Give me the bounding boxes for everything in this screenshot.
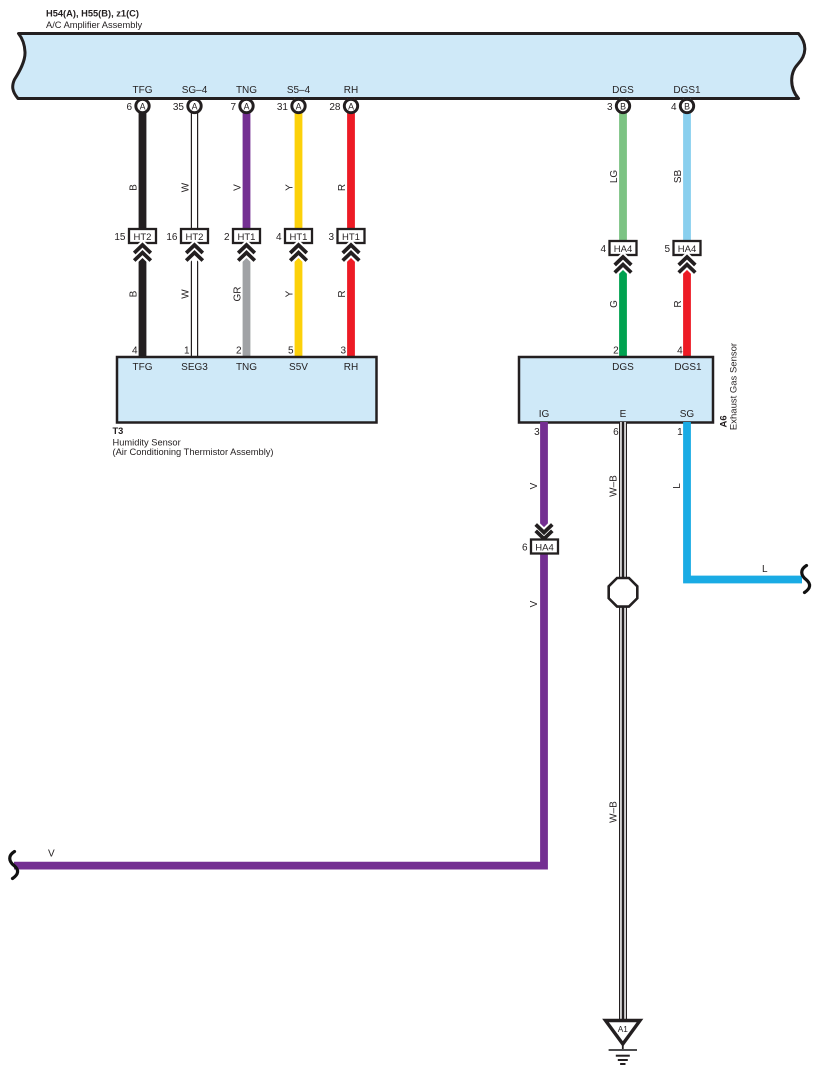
svg-text:Exhaust Gas Sensor: Exhaust Gas Sensor (729, 343, 740, 430)
svg-text:4: 4 (132, 345, 138, 356)
svg-text:RH: RH (344, 362, 358, 373)
svg-text:2: 2 (224, 232, 230, 243)
svg-text:DGS1: DGS1 (674, 362, 702, 373)
connector HA4 pin 5 (674, 241, 701, 255)
svg-text:3: 3 (340, 345, 346, 356)
svg-text:4: 4 (276, 232, 282, 243)
svg-text:B: B (684, 102, 690, 112)
svg-text:TNG: TNG (236, 85, 257, 96)
svg-text:31: 31 (277, 102, 289, 113)
wire IG violet run down and left (14, 422, 544, 866)
svg-text:L: L (672, 483, 683, 489)
connector HT1 pin 4 (285, 229, 312, 243)
svg-text:SEG3: SEG3 (181, 362, 208, 373)
svg-text:5: 5 (664, 244, 670, 255)
junction chevrons below HA4 (615, 257, 632, 265)
svg-text:R: R (673, 300, 684, 307)
wire end squiggle (left, V wire) (10, 852, 18, 879)
svg-text:28: 28 (329, 102, 341, 113)
svg-text:DGS: DGS (612, 85, 634, 96)
wire SG–4 upper segment (W) (191, 99, 198, 232)
connector HT1 pin 2 (233, 229, 260, 243)
svg-text:3: 3 (607, 102, 613, 113)
svg-text:DGS1: DGS1 (673, 85, 701, 96)
svg-text:3: 3 (534, 427, 540, 438)
svg-text:A: A (192, 102, 198, 112)
svg-text:H54(A), H55(B), z1(C): H54(A), H55(B), z1(C) (46, 9, 139, 19)
wire TFG upper segment (B) (139, 99, 147, 232)
wire TFG lower segment (B) (139, 242, 147, 358)
svg-text:W: W (181, 182, 192, 192)
svg-text:IG: IG (539, 409, 550, 420)
svg-text:V: V (529, 482, 540, 489)
connector HT1 pin 3 (338, 229, 365, 243)
svg-text:V: V (529, 600, 540, 607)
wire RH upper segment (R) (347, 99, 355, 232)
wire RH lower segment (R) (347, 242, 355, 358)
svg-text:A: A (140, 102, 146, 112)
svg-text:S5V: S5V (289, 362, 308, 373)
svg-text:TFG: TFG (133, 85, 153, 96)
junction chevrons below HT1 (238, 245, 255, 253)
svg-text:G: G (609, 300, 620, 308)
junction chevrons above HA4 pin 6 (536, 531, 553, 539)
svg-text:V: V (48, 849, 55, 860)
svg-text:HA4: HA4 (535, 542, 553, 553)
ground A1 symbol (606, 1021, 641, 1045)
connector HA4 pin 4 (610, 241, 637, 255)
svg-text:R: R (337, 184, 348, 191)
connector HT2 pin 15 (129, 229, 156, 243)
wire TNG upper segment (V) (243, 99, 251, 232)
svg-text:2: 2 (613, 345, 619, 356)
wire end squiggle (right, L wire) (802, 566, 810, 593)
svg-text:Humidity Sensor: Humidity Sensor (113, 437, 181, 447)
junction chevrons below HA4 (679, 257, 696, 265)
svg-text:SG: SG (680, 409, 695, 420)
wire TNG lower segment (GR) (243, 242, 251, 358)
junction chevrons below HT1 (343, 245, 360, 253)
svg-text:6: 6 (613, 427, 619, 438)
svg-text:T3: T3 (113, 426, 124, 436)
svg-text:GR: GR (233, 287, 244, 302)
svg-text:S5–4: S5–4 (287, 85, 311, 96)
svg-text:R: R (337, 290, 348, 297)
svg-text:A: A (244, 102, 250, 112)
connector HA4 pin 6 (531, 540, 558, 554)
svg-text:LG: LG (609, 170, 620, 184)
svg-text:6: 6 (126, 102, 132, 113)
svg-text:5: 5 (288, 345, 294, 356)
svg-text:W: W (181, 289, 192, 299)
svg-text:1: 1 (184, 345, 190, 356)
svg-text:W–B: W–B (609, 475, 620, 497)
wire E W-B run (619, 422, 627, 580)
svg-text:Y: Y (285, 290, 296, 297)
exhaust gas sensor A6 box (519, 357, 713, 423)
wire S5–4 lower segment (Y) (295, 242, 303, 358)
A/C amplifier assembly box (13, 34, 805, 99)
wire DGS1 lower segment (R) (683, 254, 691, 358)
svg-text:A/C Amplifier Assembly: A/C Amplifier Assembly (46, 20, 142, 30)
junction chevrons below HT2 (186, 245, 203, 253)
svg-text:W–B: W–B (609, 801, 620, 823)
humidity sensor T3 box (117, 357, 377, 423)
svg-text:B: B (129, 184, 140, 191)
svg-text:L: L (762, 564, 768, 575)
svg-text:SB: SB (673, 170, 684, 184)
svg-text:15: 15 (114, 232, 126, 243)
splice octagon on W-B wire (609, 578, 638, 607)
svg-text:RH: RH (344, 85, 358, 96)
svg-text:A: A (296, 102, 302, 112)
svg-text:TFG: TFG (133, 362, 153, 373)
junction chevrons below HT2 (134, 245, 151, 253)
wire S5–4 upper segment (Y) (295, 99, 303, 232)
svg-text:E: E (620, 409, 627, 420)
svg-text:7: 7 (230, 102, 236, 113)
svg-text:B: B (620, 102, 626, 112)
svg-text:35: 35 (173, 102, 185, 113)
wire SG–4 lower segment (W) (191, 242, 198, 358)
connector HT2 pin 16 (181, 229, 208, 243)
svg-text:4: 4 (671, 102, 677, 113)
svg-text:B: B (129, 290, 140, 297)
junction chevrons below HT1 (290, 245, 307, 253)
svg-text:1: 1 (677, 427, 683, 438)
svg-text:DGS: DGS (612, 362, 634, 373)
wire SG blue run down and right (687, 422, 802, 580)
wire DGS upper segment (LG) (619, 99, 627, 244)
svg-text:2: 2 (236, 345, 242, 356)
wire DGS1 upper segment (SB) (683, 99, 691, 244)
svg-text:Y: Y (285, 184, 296, 191)
svg-text:4: 4 (600, 244, 606, 255)
svg-text:(Air Conditioning Thermistor A: (Air Conditioning Thermistor Assembly) (113, 447, 274, 457)
svg-text:SG–4: SG–4 (182, 85, 208, 96)
svg-text:A: A (348, 102, 354, 112)
svg-text:16: 16 (166, 232, 178, 243)
svg-text:A1: A1 (618, 1024, 629, 1034)
svg-text:TNG: TNG (236, 362, 257, 373)
svg-text:6: 6 (522, 542, 528, 553)
svg-text:3: 3 (328, 232, 334, 243)
svg-text:4: 4 (677, 345, 683, 356)
wire DGS lower segment (G) (619, 254, 627, 358)
svg-text:V: V (233, 184, 244, 191)
